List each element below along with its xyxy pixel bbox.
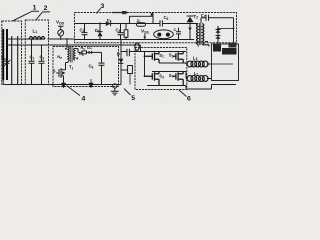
inductor L3 — [186, 56, 212, 67]
capacitor C7 — [201, 13, 234, 21]
diode D5 up — [187, 16, 194, 40]
wire T1 primary riser — [66, 39, 68, 48]
resistor R1 — [124, 23, 128, 40]
dashed box 4 — [53, 47, 119, 87]
fuse F circle — [58, 26, 64, 39]
label 5 with leader — [124, 89, 135, 102]
wire bottom mains conductor — [13, 44, 135, 46]
label Ns — [79, 51, 84, 57]
resistor R6 — [121, 66, 132, 85]
label 3 with leader — [96, 3, 104, 14]
capacitor C1 — [29, 39, 35, 85]
tube V1 oval with electrodes — [154, 30, 174, 39]
label 6 with leader — [179, 90, 191, 103]
label VDD — [56, 20, 65, 26]
wire box3 top rail — [75, 23, 197, 25]
label 4 with leader — [67, 86, 86, 103]
mosfet S4 — [169, 72, 183, 86]
capacitor C8 bus — [121, 49, 145, 57]
mosfet S3 — [145, 72, 165, 86]
wire L1 to box3 — [48, 38, 76, 40]
diode D8 — [119, 59, 124, 64]
inductor L2 — [186, 71, 212, 82]
mains plug P — [3, 29, 13, 85]
node J2 — [66, 38, 68, 40]
capacitor C2 — [39, 45, 45, 85]
label Np — [57, 54, 62, 60]
diode D3 — [106, 17, 112, 26]
label 1 with leader — [13, 5, 40, 21]
ground GND — [111, 84, 119, 95]
label Vin — [1, 56, 7, 62]
dashed box 5 — [135, 48, 187, 90]
capacitor C3 — [80, 24, 88, 40]
control block U1 — [130, 16, 154, 23]
capacitor C6 — [89, 52, 105, 84]
bridge top rail — [145, 51, 187, 53]
wire VSS rail — [75, 39, 195, 41]
T2 secondary connection — [198, 42, 209, 47]
inductor L1 — [29, 29, 45, 40]
diode D4 — [87, 46, 101, 54]
current sensor CT oval — [135, 43, 141, 52]
capacitor CX in box1 — [12, 36, 18, 85]
switch transistor S — [53, 63, 66, 83]
resistor Z1 — [137, 18, 146, 26]
bridge right link — [185, 72, 187, 79]
node J1 — [60, 38, 62, 40]
zener diode Dz — [95, 24, 103, 40]
capacitor C4 — [116, 24, 124, 40]
arrow down A3 — [61, 80, 66, 89]
box 6 load outline — [212, 44, 239, 81]
mosfet S2 — [169, 52, 183, 64]
resistor R5 — [75, 46, 89, 54]
varistor RV — [4, 60, 11, 67]
node J3 — [99, 23, 101, 25]
node J4 — [233, 28, 235, 30]
label 2 with leader — [36, 5, 51, 20]
bridge gate rail — [144, 52, 146, 78]
dashed box 2 — [25, 20, 48, 85]
dashed box 3 — [75, 13, 237, 43]
label VSS with arrow — [141, 29, 149, 40]
blob on box3 edge — [112, 11, 128, 14]
dashed box 1 — [2, 21, 22, 85]
capacitor C5 — [160, 15, 169, 26]
arrow down A4 — [89, 79, 94, 89]
diode chain D6 D7 — [216, 26, 234, 44]
label D8 — [117, 51, 120, 56]
capacitor C6s small — [174, 27, 182, 40]
wire output right drop — [233, 18, 235, 44]
label T2 — [194, 14, 199, 20]
transformer T1 — [65, 46, 78, 70]
mosfet S1 — [145, 52, 165, 64]
load element dark band — [213, 43, 237, 55]
bottom ground rail — [10, 84, 121, 86]
bridge bottom rail — [147, 85, 236, 90]
transformer T2 — [197, 18, 204, 45]
wire top mains conductor — [13, 38, 29, 40]
wire VSS drop — [120, 39, 122, 85]
wire U1 feed — [151, 12, 154, 16]
bridge mid wire — [152, 63, 186, 72]
